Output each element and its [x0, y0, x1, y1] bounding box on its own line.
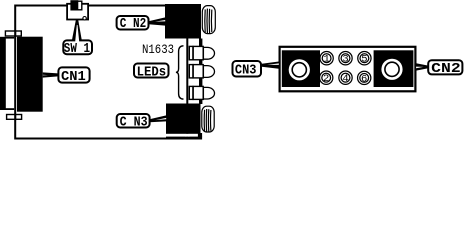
callout CN3 tail — [150, 115, 167, 122]
svg-text:SW 1: SW 1 — [64, 41, 90, 57]
LED 1 body — [193, 46, 203, 59]
faceplate outer box — [280, 47, 416, 92]
pin 2 — [320, 71, 333, 85]
left jack opening — [289, 59, 310, 80]
bracket flange top line — [0, 37, 14, 39]
CN2 cable coil — [202, 6, 215, 34]
card edge through top tab — [14, 30, 16, 37]
callout CN1 tail — [43, 72, 58, 77]
svg-text:CN2: CN2 — [431, 61, 461, 77]
svg-text:5: 5 — [361, 54, 367, 66]
svg-text:6: 6 — [361, 73, 367, 85]
pin 3 — [339, 52, 352, 66]
svg-text:1: 1 — [323, 54, 329, 66]
bracket flange bottom line — [0, 108, 14, 110]
svg-text:C N3: C N3 — [120, 115, 148, 131]
CN1 connector face strip — [0, 37, 6, 110]
LED 3 collar — [189, 86, 193, 99]
svg-text:4: 4 — [342, 73, 348, 85]
LED 1 dome — [203, 47, 214, 59]
LEDs brace — [176, 46, 184, 99]
CN3 block bottom right — [166, 104, 201, 134]
LED 1 collar — [189, 46, 193, 59]
pin 6 — [358, 71, 371, 85]
callout SW1 box — [63, 40, 92, 54]
SW1 actuator slot — [71, 1, 82, 10]
svg-text:CN3: CN3 — [235, 63, 257, 79]
callout CN2 tail (faceplate) — [416, 63, 428, 70]
DB25 connector CN1 body — [17, 37, 43, 112]
callout CN3 box (card) — [117, 114, 150, 128]
card right edge gap below CN3 block — [185, 134, 189, 137]
svg-text:N1633: N1633 — [142, 42, 174, 57]
card bottom edge extension under CN3 — [166, 137, 202, 140]
SW1 knob — [70, 0, 78, 10]
callout CN3 box (faceplate) — [233, 61, 262, 77]
PCB card outline — [15, 6, 187, 139]
pin 1 — [320, 52, 333, 66]
LED 2 collar — [189, 65, 193, 78]
LED 2 body — [193, 65, 203, 78]
callout CN3 tail (faceplate) — [262, 62, 279, 69]
right jack opening — [381, 59, 402, 80]
pin 4 — [339, 71, 352, 85]
CN2 block top right — [165, 4, 201, 39]
callout CN2 box (faceplate) — [428, 60, 462, 74]
faceplate left black panel — [282, 50, 320, 87]
LED rail stub — [199, 39, 202, 105]
bottom mounting tab — [7, 115, 22, 120]
callout LEDs box — [134, 64, 169, 78]
card edge through bottom tab — [14, 114, 16, 120]
svg-text:2: 2 — [323, 73, 329, 85]
switch SW1 body — [67, 4, 88, 20]
svg-text:C N2: C N2 — [120, 16, 146, 32]
callout CN1 box — [58, 67, 89, 82]
CN3 cable coil — [202, 106, 214, 132]
svg-text:CN1: CN1 — [61, 69, 86, 85]
svg-text:LEDs: LEDs — [137, 64, 167, 80]
LED 3 body — [193, 86, 203, 99]
pin 5 — [358, 52, 371, 66]
callout CN2 tail — [149, 17, 166, 25]
faceplate right black panel — [374, 50, 414, 87]
svg-text:3: 3 — [342, 54, 348, 66]
LED 2 dome — [203, 66, 214, 78]
LED 3 dome — [203, 87, 214, 99]
SW1 pivot circle — [83, 17, 86, 20]
top mounting tab — [5, 31, 21, 36]
callout CN2 box (card) — [117, 16, 149, 30]
callout SW1 tail — [72, 20, 82, 40]
